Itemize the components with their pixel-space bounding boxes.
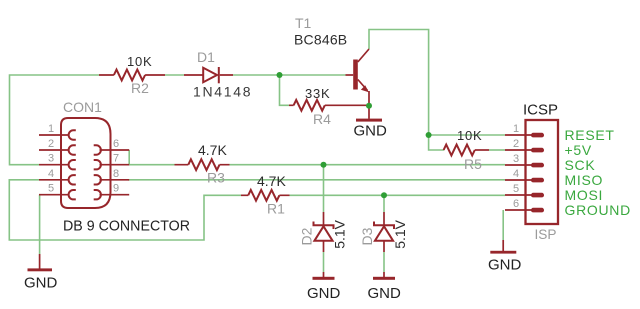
svg-text:BC846B: BC846B	[294, 32, 347, 48]
svg-text:5.1V: 5.1V	[332, 219, 348, 248]
svg-text:7: 7	[113, 153, 119, 165]
svg-text:MOSI: MOSI	[565, 187, 604, 203]
wire DB9 pin8 to ICSP pin4 MISO	[128, 179, 505, 181]
svg-text:1: 1	[513, 123, 519, 135]
svg-text:2: 2	[48, 138, 54, 150]
CON1 pin 1	[39, 123, 76, 140]
svg-text:10K: 10K	[457, 128, 483, 143]
svg-text:1: 1	[48, 123, 54, 135]
svg-text:R3: R3	[207, 170, 225, 186]
node emitter junction dot	[366, 103, 372, 109]
zener diode D3 5.1V	[359, 212, 408, 252]
ground under DB9 pin5	[24, 254, 58, 292]
resistor R3 4.7K	[175, 142, 230, 186]
wire node A down to R4 left lead	[280, 75, 290, 105]
CON1 pin 5	[39, 183, 76, 200]
svg-text:SCK: SCK	[565, 157, 596, 173]
svg-text:DB 9 CONNECTOR: DB 9 CONNECTOR	[63, 218, 190, 235]
svg-text:MISO: MISO	[565, 172, 604, 188]
svg-text:3: 3	[48, 153, 54, 165]
CON1 pin 6	[94, 138, 130, 155]
svg-text:CON1: CON1	[63, 99, 102, 115]
connector ICSP header	[523, 102, 558, 243]
svg-text:+5V: +5V	[565, 142, 592, 158]
svg-text:GND: GND	[24, 275, 58, 292]
wire R1 right lead to ICSP pin5 MOSI	[290, 194, 506, 196]
svg-text:R4: R4	[313, 111, 331, 127]
ICSP pin 5	[505, 183, 544, 197]
wire R3 right to ICSP pin3 SCK	[230, 164, 506, 166]
wire node B down to R5 left lead	[429, 135, 444, 150]
CON1 pin 9	[94, 183, 130, 200]
wire DB9 pin6 elbow down to pin7 net	[129, 150, 174, 165]
resistor R1 4.7K	[241, 173, 290, 217]
ICSP pin 1	[505, 123, 544, 137]
transistor T1 BC846B	[294, 15, 369, 106]
svg-text:10K: 10K	[127, 54, 153, 69]
wire R5 right lead to ICSP pin2	[489, 149, 505, 151]
svg-text:RESET: RESET	[565, 127, 615, 143]
svg-text:4: 4	[513, 168, 519, 180]
svg-text:33K: 33K	[305, 86, 331, 101]
svg-text:9: 9	[113, 183, 119, 195]
ground under ICSP pin6	[488, 240, 522, 274]
svg-text:8: 8	[113, 168, 119, 180]
svg-text:GND: GND	[368, 285, 402, 302]
svg-text:ICSP: ICSP	[523, 102, 558, 119]
svg-text:D1: D1	[197, 49, 215, 65]
wire D3 anode to ground symbol	[383, 252, 385, 272]
svg-text:1N4148: 1N4148	[193, 84, 252, 100]
svg-text:5.1V: 5.1V	[392, 219, 408, 248]
wire from D1 cathode to node A and transistor base	[233, 74, 346, 76]
svg-text:ISP: ISP	[535, 226, 557, 242]
CON1 pin 4	[39, 168, 76, 185]
ICSP pin 3	[505, 153, 544, 167]
svg-text:GND: GND	[488, 257, 522, 274]
ground under transistor emitter	[354, 106, 388, 140]
node C junction dot	[321, 162, 327, 168]
svg-text:R2: R2	[131, 80, 149, 96]
wire node C down to zener D2	[323, 165, 325, 212]
svg-text:5: 5	[48, 183, 54, 195]
node D junction dot	[381, 192, 387, 198]
svg-text:GROUND: GROUND	[565, 202, 631, 218]
svg-text:D3: D3	[359, 227, 375, 245]
CON1 pin 8	[94, 168, 130, 185]
svg-text:4.7K: 4.7K	[257, 173, 286, 189]
svg-text:3: 3	[513, 153, 519, 165]
resistor R2 10K	[99, 54, 165, 96]
CON1 pin 7	[94, 153, 130, 170]
ICSP pin 6	[505, 198, 544, 212]
wire from DB9 pin3 up left side to R2	[10, 75, 100, 165]
svg-text:R5: R5	[464, 156, 482, 172]
wire between R2 and D1	[165, 74, 184, 76]
svg-text:6: 6	[513, 198, 519, 210]
wire ICSP pin6 down to ground	[502, 210, 504, 240]
svg-text:6: 6	[113, 138, 119, 150]
svg-text:4: 4	[48, 168, 54, 180]
CON1 pin 2	[39, 138, 76, 155]
wire DB9 pin4 down along bottom to R1 left lead	[9, 180, 241, 240]
svg-text:R1: R1	[267, 201, 285, 217]
svg-text:2: 2	[513, 138, 519, 150]
svg-text:T1: T1	[295, 15, 312, 31]
svg-text:4.7K: 4.7K	[198, 142, 227, 158]
ground under D3	[368, 272, 402, 302]
wire DB9 pin5 down to ground	[39, 195, 41, 254]
resistor R4 33K	[289, 86, 368, 127]
node A junction dot	[277, 72, 283, 78]
wire collector top run down right side to ICSP pin1	[369, 30, 505, 136]
svg-text:D2: D2	[299, 227, 315, 245]
wire node D down to zener D3	[383, 195, 385, 212]
wire D2 anode to ground symbol	[323, 252, 325, 272]
diode D1 1N4148	[184, 49, 252, 100]
ICSP pin 2	[505, 138, 544, 152]
svg-text:5: 5	[513, 183, 519, 195]
svg-text:GND: GND	[307, 285, 341, 302]
ground under D2	[307, 272, 341, 302]
zener diode D2 5.1V	[299, 212, 348, 252]
resistor R5 10K	[444, 128, 489, 172]
CON1 pin 3	[39, 153, 76, 170]
node B junction dot	[426, 132, 432, 138]
connector CON1 DB9 outline	[61, 99, 190, 235]
ICSP pin 4	[505, 168, 544, 182]
svg-text:GND: GND	[354, 123, 388, 140]
